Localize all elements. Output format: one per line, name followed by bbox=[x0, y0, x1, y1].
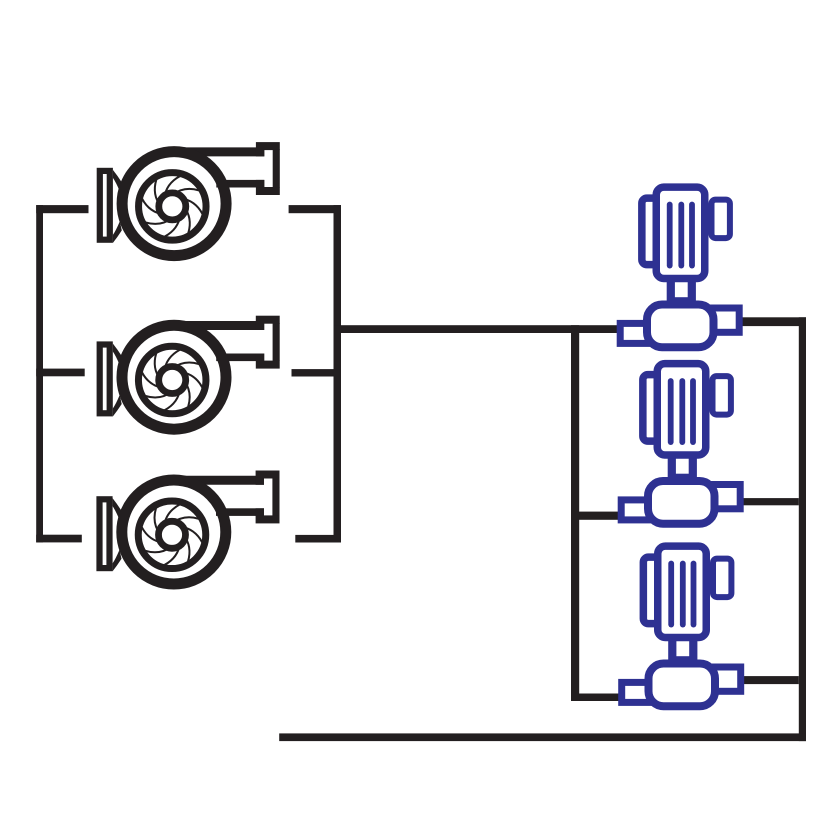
pump P3 bbox=[622, 546, 741, 706]
wire pump P1 discharge stub bbox=[739, 317, 806, 326]
wire pump suction bus bbox=[571, 325, 579, 701]
wire fan B3 outlet stub bbox=[295, 535, 341, 543]
wire pump P3 discharge stub bbox=[741, 676, 799, 684]
wire pump P3 suction stub bbox=[579, 694, 620, 702]
wire main header line bbox=[334, 325, 621, 333]
wire fan discharge bus bbox=[334, 205, 342, 542]
wire pump discharge bus bbox=[799, 317, 806, 741]
fan B3 bbox=[100, 471, 280, 585]
wire fan B2 outlet stub bbox=[292, 369, 342, 376]
wire fan B3 inlet stub bbox=[36, 535, 82, 543]
wire pump P2 discharge stub bbox=[739, 498, 798, 505]
wire fan B1 inlet stub bbox=[36, 205, 88, 213]
wire fan B2 inlet stub bbox=[36, 369, 84, 377]
fan B1 bbox=[100, 142, 280, 256]
wire fan B1 outlet stub bbox=[289, 205, 341, 213]
wire left supply bus bbox=[36, 205, 43, 542]
wire bottom return line bbox=[279, 733, 806, 741]
pump P2 bbox=[621, 364, 740, 524]
fan B2 bbox=[100, 316, 280, 430]
pump P1 bbox=[620, 187, 739, 347]
wire pump P2 suction stub bbox=[579, 512, 621, 520]
